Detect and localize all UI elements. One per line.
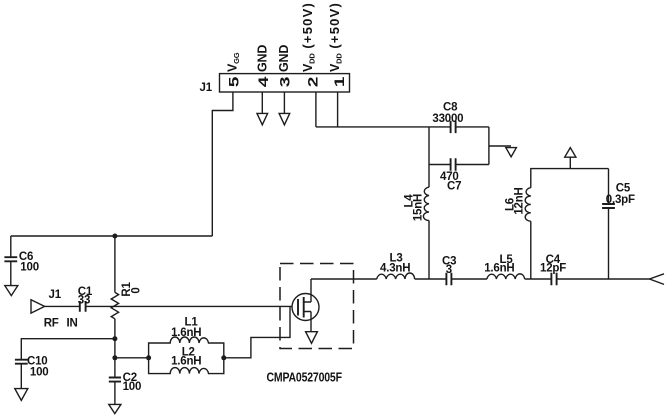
wire C10 to ground: [20, 364, 22, 389]
transistor Q1: [292, 294, 319, 321]
capacitor C8: [451, 121, 456, 133]
wire VGG rail: [11, 235, 213, 237]
svg-text:15nH: 15nH: [413, 194, 425, 221]
wire C4 to output: [557, 278, 650, 280]
svg-text:100: 100: [20, 262, 39, 274]
svg-text:RF: RF: [44, 317, 59, 329]
wire C5 branch: [608, 169, 610, 279]
inductor L6: [525, 188, 531, 222]
wire gate input: [86, 305, 292, 307]
wire drain: [310, 279, 312, 302]
ground at C10: [15, 389, 28, 401]
svg-text:4: 4: [255, 76, 271, 87]
node VGG rail / R1: [112, 234, 117, 239]
inductor L1: [149, 337, 224, 358]
capacitor C5: [602, 204, 615, 208]
wire R1 bottom lead: [114, 319, 116, 339]
svg-text:33000: 33000: [432, 113, 463, 125]
node C2 top: [112, 355, 117, 360]
output arrow: [650, 274, 665, 285]
svg-text:3: 3: [277, 77, 293, 87]
wire pin3 stub: [283, 92, 285, 113]
supply arrow: [565, 148, 576, 158]
svg-text:1.6nH: 1.6nH: [171, 355, 201, 367]
inductor L2: [149, 358, 224, 374]
svg-text:33: 33: [78, 295, 90, 307]
ground at C2: [109, 404, 121, 413]
svg-text:100: 100: [30, 366, 49, 378]
inductor L4: [423, 187, 429, 220]
wire RF to C1: [45, 305, 80, 307]
inductor L5: [487, 274, 525, 279]
resistor R1: [111, 292, 118, 318]
capacitor C4: [551, 273, 556, 286]
capacitor C10: [15, 360, 28, 364]
svg-text:GND: GND: [277, 45, 291, 72]
svg-text:100: 100: [123, 381, 142, 393]
wire source: [310, 312, 312, 332]
wire L5 to C4: [525, 278, 552, 280]
wire C2 lead: [114, 358, 116, 378]
wire pin5 to VGG rail: [212, 92, 233, 236]
capacitor C6: [4, 236, 17, 285]
svg-text:1: 1: [331, 77, 347, 87]
svg-text:12nH: 12nH: [514, 187, 526, 214]
wire VDD feed down: [428, 127, 430, 279]
connector J1 box: [220, 74, 350, 92]
wire C2 to ground: [114, 382, 116, 405]
svg-text:2: 2: [305, 77, 321, 87]
capacitor C7: [451, 158, 456, 170]
svg-text:GND: GND: [255, 45, 269, 72]
svg-text:J1: J1: [49, 289, 62, 301]
capacitor C3: [446, 273, 451, 286]
svg-text:3: 3: [446, 264, 452, 276]
wire gate bias: [224, 306, 290, 357]
ground at bypass: [506, 148, 517, 157]
svg-text:C5: C5: [616, 183, 631, 195]
svg-text:C8: C8: [443, 102, 458, 114]
svg-text:IN: IN: [67, 317, 78, 329]
svg-text:1.6nH: 1.6nH: [484, 263, 514, 275]
svg-text:CMPA0527005F: CMPA0527005F: [267, 372, 342, 385]
svg-text:5: 5: [226, 77, 242, 87]
supply arrow stub: [569, 157, 571, 168]
wire bypass right leg: [488, 127, 490, 165]
wire C3 to L5: [451, 278, 487, 280]
svg-text:0: 0: [130, 287, 142, 293]
svg-text:C7: C7: [447, 181, 461, 193]
svg-text:0.3pF: 0.3pF: [606, 194, 635, 206]
ground at pin 3: [279, 113, 290, 124]
dashed box CMPA0527005F outline: [280, 264, 354, 349]
svg-text:12pF: 12pF: [540, 263, 566, 275]
connector J1 RF IN arrow: [31, 300, 45, 313]
wire pin1 stub: [337, 92, 339, 127]
ground at source: [306, 332, 318, 344]
wire ground stub: [489, 145, 511, 147]
inductor L3: [377, 273, 415, 279]
capacitor C1: [80, 301, 86, 312]
svg-text:4.3nH: 4.3nH: [380, 262, 410, 274]
wire to C10: [21, 339, 115, 360]
wire node to L1L2: [115, 357, 149, 359]
node L1L2 left: [146, 355, 151, 360]
ground at C6: [5, 286, 18, 296]
wire pin4 stub: [261, 92, 263, 113]
node L1L2 right: [221, 355, 226, 360]
wire bias down: [114, 339, 116, 358]
wire drain line: [311, 278, 377, 280]
svg-text:J1: J1: [200, 82, 213, 94]
wire bypass bottom: [429, 164, 489, 166]
capacitor C2: [109, 378, 121, 382]
wire L6 branch: [531, 169, 609, 279]
wire L3 to C3: [415, 278, 447, 280]
svg-text:1.6nH: 1.6nH: [171, 327, 201, 339]
wire R1 top lead: [114, 236, 116, 292]
ground at pin 4: [257, 113, 268, 124]
node bias junction: [112, 336, 117, 341]
wire pin2 stub: [315, 92, 317, 127]
wire VDD bus: [316, 126, 489, 128]
